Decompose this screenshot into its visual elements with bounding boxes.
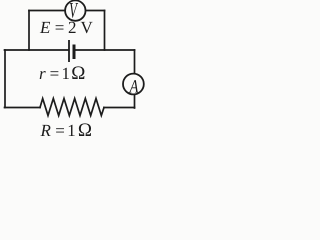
wire bottom right <box>104 107 135 109</box>
wire voltmeter loop left <box>28 11 30 51</box>
svg-text:A: A <box>129 76 139 97</box>
resistor R zigzag <box>40 99 104 116</box>
battery E negative plate (short thick) <box>73 45 76 60</box>
wire bottom left <box>5 107 41 109</box>
wire right vertical (to ammeter) <box>134 50 136 108</box>
voltmeter U1 circle <box>65 0 85 20</box>
wire voltmeter loop top <box>29 10 105 12</box>
ammeter U2 circle <box>123 74 144 95</box>
wire voltmeter loop right <box>104 11 106 51</box>
battery E positive plate (long) <box>68 40 70 62</box>
wire main left (battery row, left of battery) <box>5 49 69 51</box>
wire main right (battery row, right of battery) <box>75 49 135 51</box>
wire left vertical <box>4 50 6 108</box>
